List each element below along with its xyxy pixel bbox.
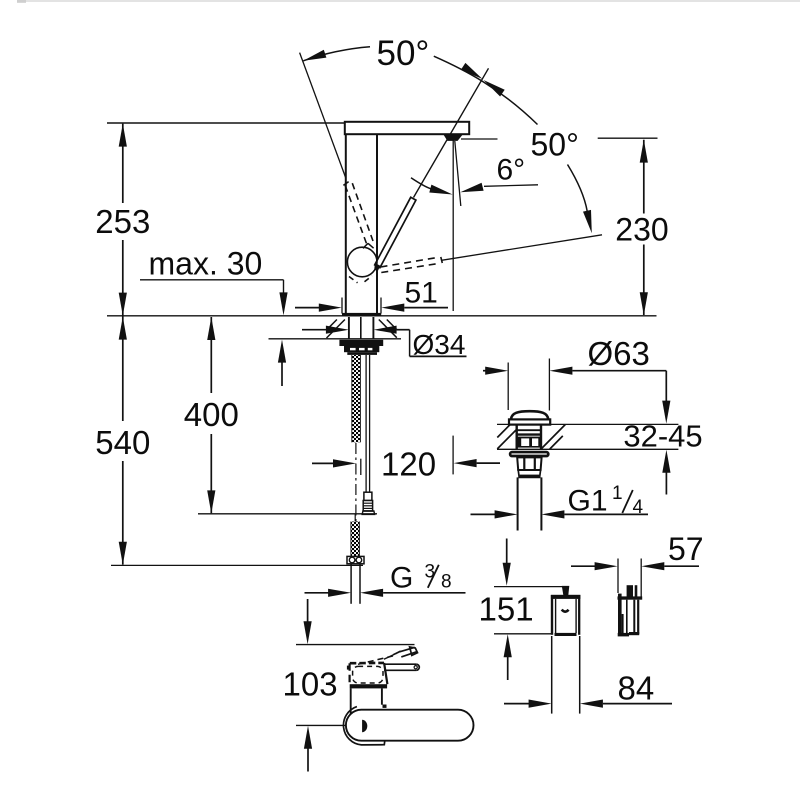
6 deg tilted line — [455, 141, 461, 206]
base gasket — [342, 313, 381, 317]
dimension Ø34 — [302, 329, 326, 331]
dimension 230 — [598, 137, 658, 139]
svg-text:151: 151 — [479, 590, 534, 627]
drain inner line — [517, 429, 541, 431]
drain transition — [518, 470, 540, 477]
arrow arc50top left — [303, 50, 326, 61]
deck line bottom at drain — [497, 448, 678, 450]
deck line top at drain — [497, 423, 678, 425]
deck hatch at drain left — [497, 430, 516, 449]
cartridge left tick — [347, 666, 349, 670]
arc 6deg — [411, 178, 431, 189]
lever up position — [375, 197, 416, 267]
leader Ø34 — [409, 330, 411, 357]
dimension G1 1/4 — [471, 513, 496, 515]
svg-text:max. 30: max. 30 — [149, 246, 263, 282]
svg-text:57: 57 — [668, 531, 704, 567]
svg-text:G: G — [390, 562, 413, 595]
arrow arc50top right — [461, 63, 483, 79]
leader 230 — [442, 235, 603, 260]
control box bottom — [555, 633, 577, 636]
side view right walls — [633, 600, 635, 635]
dimension 151 bottom arrow — [504, 634, 512, 657]
svg-text:103: 103 — [283, 666, 338, 703]
arc 50 top right segment — [434, 56, 538, 124]
dimension Ø63 — [483, 370, 487, 372]
side view top bar — [618, 596, 643, 599]
extension line 51 left — [341, 298, 343, 314]
top edge artifact — [17, 0, 800, 2]
dimension 103 upper arrow — [307, 599, 309, 622]
dimension 51 arrows — [295, 307, 320, 309]
drain body walls — [516, 424, 518, 449]
cartridge box top edge — [350, 662, 384, 665]
hose below box — [551, 636, 553, 714]
aerator D mark — [362, 720, 367, 732]
svg-text:50°: 50° — [377, 34, 430, 73]
pivot ref line — [461, 138, 498, 140]
extension line Ø63 left — [507, 363, 509, 411]
lever dashed up-left position — [345, 186, 366, 244]
arrow max30 lower — [278, 340, 286, 363]
lever set screw — [414, 666, 417, 669]
hose end fitting — [347, 556, 364, 563]
dimension 120 — [312, 462, 335, 464]
rotated lever end cap — [410, 647, 418, 656]
braided hose lower — [354, 514, 356, 522]
body left side — [350, 688, 352, 714]
lever dashed down position — [349, 277, 358, 283]
svg-text:400: 400 — [184, 396, 239, 433]
center dash-dot line — [355, 443, 357, 524]
extension line 400 bottom — [198, 513, 377, 515]
control box walls — [551, 595, 553, 635]
deck plate edge — [350, 684, 387, 688]
drain tail pipe G1 1/4 — [517, 477, 519, 530]
column left wall — [345, 134, 347, 313]
braided hose upper — [352, 355, 361, 442]
deck hatch right — [379, 320, 397, 338]
dimension 540 line — [122, 316, 124, 421]
svg-text:1: 1 — [612, 483, 623, 504]
vertical ref line — [452, 141, 454, 312]
control box top — [551, 595, 581, 599]
deck hatch at drain right — [541, 425, 565, 449]
svg-text:6°: 6° — [497, 153, 526, 186]
control box nub — [562, 586, 570, 596]
rotated lever — [400, 647, 415, 652]
drain washer — [509, 451, 550, 458]
arc 50 right lower segment — [568, 165, 588, 212]
drain cap rim — [509, 419, 550, 424]
dimension 120 right arrow — [454, 459, 477, 467]
pull rod — [365, 355, 367, 492]
arrow 6deg right — [460, 183, 483, 193]
dimension 103 lower arrow — [304, 726, 312, 749]
arc 50 top left segment — [303, 47, 370, 61]
extension line spout top — [107, 122, 345, 124]
rotated lever lead line — [384, 652, 400, 659]
dimension 57 — [571, 565, 596, 567]
extension line 57 left — [617, 559, 619, 594]
control box clip — [562, 610, 569, 612]
50 deg left flank line — [300, 53, 346, 178]
drain cap dome — [511, 411, 548, 419]
extension line 51 right — [380, 298, 382, 314]
svg-text:120: 120 — [381, 446, 436, 483]
dimension 32-45 vertical — [665, 371, 667, 403]
svg-text:253: 253 — [95, 203, 150, 240]
extension line 103 bottom — [296, 724, 359, 726]
extension line 540 bottom — [111, 564, 363, 566]
deck hatch left — [327, 320, 345, 339]
extension line 151 top — [494, 586, 566, 588]
svg-text:51: 51 — [405, 276, 438, 309]
spout outer wall offset — [343, 707, 384, 745]
spout bar — [345, 122, 469, 134]
extension line 151 bottom — [494, 633, 552, 635]
svg-text:Ø63: Ø63 — [588, 335, 650, 372]
extension line 57 right — [640, 559, 642, 599]
svg-text:8: 8 — [441, 571, 452, 592]
svg-text:50°: 50° — [531, 127, 579, 163]
side view inner line — [626, 600, 628, 634]
body right side — [381, 688, 383, 704]
arrow 6deg left — [429, 185, 452, 195]
column right wall — [376, 134, 378, 313]
node deck line — [107, 315, 657, 317]
dimension 151 top arrow — [506, 539, 508, 565]
extension line 103 top — [296, 644, 415, 646]
lever dashed horizontal position — [381, 257, 438, 267]
svg-text:G1: G1 — [568, 485, 608, 518]
dimension 84 — [504, 703, 530, 705]
horizontal lever — [384, 663, 416, 665]
cartridge inner dashed profile — [353, 666, 383, 683]
side view bracket nub — [627, 585, 633, 597]
pivot wedge — [444, 135, 463, 141]
ball joint — [347, 247, 377, 277]
G3/8 tail pipe — [350, 564, 352, 604]
svg-text:84: 84 — [618, 669, 655, 706]
spout pill outline — [346, 710, 474, 741]
arrow arc50right lower — [583, 210, 592, 233]
leader max30 — [140, 279, 284, 281]
side view bottom — [618, 633, 629, 637]
svg-text:3: 3 — [425, 561, 436, 582]
shank walls — [348, 317, 350, 340]
dimension G3/8 — [305, 592, 330, 594]
rod connector — [364, 492, 372, 500]
leader 6deg — [484, 185, 538, 187]
vertical ref line lower segment — [452, 436, 454, 475]
svg-text:Ø34: Ø34 — [413, 329, 466, 360]
drain nut — [517, 457, 541, 470]
lever axis line — [414, 68, 489, 197]
extension line Ø63 right — [548, 359, 550, 411]
svg-text:230: 230 — [615, 212, 668, 248]
svg-text:540: 540 — [95, 424, 150, 461]
dimension 400 line — [210, 317, 212, 393]
overflow windows — [517, 437, 541, 448]
body right foot — [383, 705, 387, 708]
deck bottom line — [269, 338, 402, 340]
rotated lever hidden line — [358, 655, 397, 664]
cartridge box left edge — [349, 663, 351, 684]
side view left wall — [618, 594, 622, 636]
dimension 253 line — [122, 124, 124, 203]
mounting nut — [339, 340, 383, 346]
svg-text:4: 4 — [633, 497, 644, 518]
cartridge box right edge — [384, 663, 387, 684]
arrow arc50right upper — [484, 80, 505, 97]
